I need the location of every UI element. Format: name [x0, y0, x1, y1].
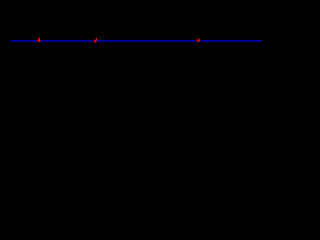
current dot 2	[94, 38, 98, 43]
wire gap under current dot 1	[37, 40, 41, 42]
current dot 3	[197, 38, 201, 42]
wire gap under current dot 2	[94, 40, 97, 42]
wire gap under current dot 3	[196, 40, 201, 42]
current dot 1	[37, 37, 41, 42]
wire	[11, 40, 263, 42]
